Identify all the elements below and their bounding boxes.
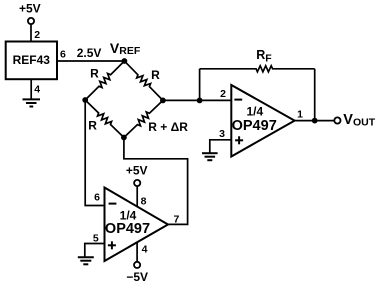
wire REF43 pin 4 to ground xyxy=(30,79,32,99)
voltage reference REF43 xyxy=(6,42,57,80)
ground (A1 pin 3) xyxy=(202,152,218,154)
A2 non-inverting input mark xyxy=(108,244,116,246)
resistor R (bridge top-left arm) xyxy=(85,61,124,100)
svg-text:1/4: 1/4 xyxy=(246,105,263,119)
svg-text:2.5V: 2.5V xyxy=(77,46,102,60)
wire RF to output node xyxy=(314,69,316,121)
A1 inverting input mark xyxy=(234,99,242,101)
svg-text:8: 8 xyxy=(141,195,147,207)
svg-text:+5V: +5V xyxy=(126,163,148,177)
wire bridge left node to op-amp A2 pin 6 xyxy=(85,100,104,206)
svg-text:OP497: OP497 xyxy=(105,221,150,237)
svg-text:6: 6 xyxy=(94,191,100,203)
op-amp A1 1/4 OP497 xyxy=(231,85,294,157)
wire A1 output to VOUT xyxy=(295,120,335,122)
svg-text:R: R xyxy=(151,68,160,82)
node VREF (bridge top) xyxy=(122,58,128,64)
node bridge bottom xyxy=(121,135,127,141)
svg-text:VOUT: VOUT xyxy=(343,112,375,128)
svg-text:−5V: −5V xyxy=(126,270,148,284)
A1 non-inverting input mark xyxy=(235,139,243,141)
svg-text:3: 3 xyxy=(219,128,225,140)
wire A2 pin 5 to ground xyxy=(85,244,105,258)
svg-text:R + ΔR: R + ΔR xyxy=(148,120,188,134)
svg-text:R: R xyxy=(88,119,97,133)
wire A1 pin 3 to ground xyxy=(210,140,232,153)
svg-text:+5V: +5V xyxy=(19,2,41,16)
A2 inverting input mark xyxy=(109,203,117,205)
svg-text:2: 2 xyxy=(34,29,40,41)
junction node (A1 inverting input) xyxy=(197,98,203,104)
svg-text:R: R xyxy=(90,66,99,80)
VOUT terminal xyxy=(334,117,340,123)
svg-text:4: 4 xyxy=(34,83,40,95)
resistor R (bridge top-right arm) xyxy=(124,61,162,100)
op-amp A2 1/4 OP497 xyxy=(105,188,169,262)
wire bridge bottom node to op-amp A2 output pin 7 xyxy=(124,138,188,225)
svg-text:REF43: REF43 xyxy=(13,53,51,67)
svg-text:7: 7 xyxy=(173,213,179,225)
-5V supply terminal (A2 pin 4) xyxy=(134,262,140,268)
wire REF43 pin 6 (2.5V) to node VREF xyxy=(57,60,124,62)
svg-text:6: 6 xyxy=(60,49,66,61)
resistor R + dR (bridge bottom-right arm) xyxy=(124,100,163,137)
svg-text:4: 4 xyxy=(142,243,148,255)
node bridge right xyxy=(160,98,166,104)
svg-text:OP497: OP497 xyxy=(232,118,277,134)
wire feedback junction up to RF xyxy=(199,69,201,101)
wire A2 pin 8 xyxy=(136,186,138,207)
wire +5V to REF43 pin 2 xyxy=(30,24,32,41)
svg-text:RF: RF xyxy=(256,48,272,64)
node bridge left xyxy=(82,97,88,103)
svg-text:VREF: VREF xyxy=(110,40,141,57)
ground (A2 pin 5) xyxy=(78,256,94,258)
wire A2 pin 4 xyxy=(136,243,138,262)
wire bridge right node to op-amp A1 pin 2 xyxy=(163,99,231,101)
svg-text:2: 2 xyxy=(220,88,226,100)
node A1 output xyxy=(312,118,318,124)
ground (REF43 pin 4) xyxy=(23,98,41,100)
svg-text:1: 1 xyxy=(297,108,303,120)
resistor R (bridge bottom-left arm) xyxy=(85,100,124,138)
resistor RF (feedback) xyxy=(200,66,315,72)
